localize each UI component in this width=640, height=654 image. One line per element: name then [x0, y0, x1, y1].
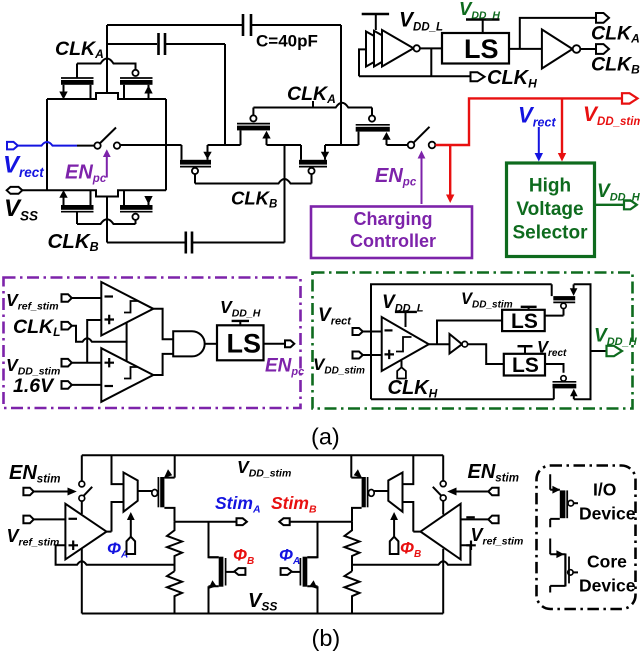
box green dash-dot border	[313, 273, 633, 409]
pin phi_A right	[281, 568, 292, 575]
svg-text:StimB: StimB	[271, 493, 317, 516]
svg-text:VDD_L: VDD_L	[399, 9, 443, 34]
switch S2 EN_pc	[408, 127, 436, 149]
svg-text:1.6V: 1.6V	[13, 375, 55, 397]
wire osc feedback	[359, 48, 470, 76]
svg-text:CLKB: CLKB	[591, 54, 640, 77]
svg-text:ΦB: ΦB	[233, 546, 254, 568]
pin V_DD_stim	[62, 320, 102, 367]
pin CLK_H clock input square	[397, 361, 406, 379]
transistor M4 PMOS bottom-right	[120, 190, 153, 224]
wire A2 plus feedback	[352, 545, 470, 564]
svg-text:ENstim: ENstim	[9, 462, 60, 486]
pin CLK_L	[62, 322, 127, 361]
arrow EN_pc up	[103, 149, 111, 177]
wire switch node	[77, 145, 94, 147]
pin V_DD_H selector	[624, 200, 637, 209]
wire C2 to stage2 rail	[340, 25, 342, 145]
wire CLKB gate wire with hump	[77, 219, 136, 224]
svg-text:VDD_H: VDD_H	[597, 181, 640, 204]
svg-text:ΦB: ΦB	[400, 539, 421, 561]
wire D2 out to M13 gate	[374, 490, 388, 492]
svg-text:Controller: Controller	[350, 231, 436, 251]
wire CLKA stage2 gate wire with hump	[253, 103, 372, 108]
transistor M7 PMOS stage2 top	[237, 108, 271, 146]
switch S4 right	[433, 455, 446, 514]
GREEN SELECTOR BOX	[313, 273, 638, 409]
transistor M11 PMOS left	[152, 455, 175, 521]
capacitor C3	[186, 232, 285, 254]
box inner solid	[371, 284, 591, 399]
transistor M12 NMOS phi_B	[208, 557, 234, 614]
op-amp A1	[65, 504, 106, 560]
arrow EN_pc stage2 up	[418, 151, 426, 205]
wire osc output to LS1	[420, 47, 442, 49]
svg-text:LS: LS	[464, 34, 499, 64]
transistor M10 PMOS bottom	[553, 376, 578, 400]
svg-text:CLKH: CLKH	[487, 67, 537, 91]
svg-text:ENstim: ENstim	[468, 461, 519, 485]
svg-text:VDD_L: VDD_L	[382, 292, 424, 315]
wire C1 to stage2 rail	[224, 44, 226, 145]
wire LS4 out to M10 gate	[545, 364, 564, 373]
wire V_DD_stim rail	[82, 454, 443, 456]
svg-text:StimA: StimA	[215, 493, 261, 516]
wire Stim_A to M12	[209, 522, 219, 558]
box LS2	[217, 325, 264, 360]
wire stage2 rail	[120, 144, 408, 146]
svg-text:Vrect: Vrect	[3, 152, 44, 181]
svg-text:VSS: VSS	[248, 590, 277, 614]
pin V_ref_stim left	[23, 516, 65, 524]
comparator CMP2	[101, 348, 153, 402]
svg-text:VDD_stim: VDD_stim	[237, 457, 291, 480]
wire Stim_B to M14	[307, 522, 317, 558]
transistor M3 NMOS bottom-left	[59, 190, 93, 224]
inverter U2	[542, 30, 596, 69]
svg-text:ΦA: ΦA	[107, 539, 128, 561]
svg-text:Device: Device	[579, 576, 636, 596]
pin V_DD_H green out	[607, 346, 623, 356]
power symbol V_DD_L CMP3	[395, 312, 417, 327]
svg-text:CLKL: CLKL	[13, 316, 60, 339]
box LS3 top	[502, 310, 545, 331]
svg-text:(a): (a)	[311, 424, 340, 450]
svg-text:VSS: VSS	[4, 195, 38, 224]
resistor R1	[167, 522, 182, 572]
svg-text:ΦA: ΦA	[279, 546, 300, 568]
pin Stim_A	[237, 518, 247, 525]
gate AND U3	[173, 331, 204, 356]
wire red branch to HV selector	[561, 98, 563, 155]
transistor M14 NMOS phi_A	[292, 557, 318, 614]
comparator CMP3	[382, 317, 429, 371]
pin CLK_B out	[596, 44, 609, 54]
wire V_DD_H out green	[591, 350, 607, 352]
pin V_DD_stim green box	[353, 352, 382, 359]
svg-text:Vrect: Vrect	[537, 339, 567, 360]
svg-text:CLKA: CLKA	[287, 83, 336, 106]
wire A2 out to driver D2	[403, 455, 421, 531]
transistor M8 PMOS stage3 top	[356, 108, 391, 146]
wire top rail to C2	[107, 24, 242, 26]
power symbol V_rect LS4	[518, 346, 533, 354]
legend I/O device symbol	[550, 474, 578, 527]
pin phi_B right up	[390, 512, 399, 554]
svg-text:Core: Core	[587, 552, 627, 572]
power symbol V_DD_H for LS2	[232, 321, 249, 325]
svg-text:Vref_stim: Vref_stim	[6, 290, 59, 313]
wire A2 ground stub	[442, 549, 444, 614]
svg-text:CLKA: CLKA	[55, 38, 104, 61]
svg-text:Vrect: Vrect	[318, 305, 352, 328]
wire V_DD_H output of selector	[595, 204, 624, 206]
wire red branch to charging controller	[449, 145, 451, 197]
pin CLK_A out	[596, 13, 609, 23]
box Charging Controller	[311, 207, 472, 259]
wire CMP2 out to AND	[153, 354, 173, 375]
wire D1 out to M11 gate	[138, 490, 152, 492]
svg-text:LS: LS	[511, 310, 538, 333]
svg-text:Charging: Charging	[354, 209, 433, 229]
node top-plate rail of pump cell	[106, 25, 108, 93]
SECTION-B	[7, 455, 636, 651]
PURPLE DETECTOR BOX	[4, 278, 305, 409]
wire inverter out to LS4	[468, 344, 504, 364]
svg-text:VDD_H: VDD_H	[594, 326, 638, 349]
wire CMP1 out to AND	[153, 309, 173, 339]
pin phi_A left up	[127, 512, 136, 554]
box purple dash-dot border	[4, 278, 301, 409]
box LS4 bottom	[504, 354, 545, 376]
svg-text:ENpc: ENpc	[265, 356, 304, 379]
svg-text:High: High	[529, 175, 571, 196]
transistor M6 NMOS hanging right	[299, 145, 329, 184]
svg-text:Voltage: Voltage	[516, 199, 583, 220]
svg-text:CLKB: CLKB	[231, 188, 277, 211]
arrow V_rect blue down	[535, 127, 543, 162]
transistor M9 PMOS top	[552, 284, 578, 315]
wire AND out to LS2	[206, 343, 218, 345]
svg-text:ENpc: ENpc	[375, 165, 417, 189]
wire mid to C1	[107, 43, 157, 45]
pin EN_stim left	[23, 488, 76, 496]
pin EN_stim right with arrow	[447, 488, 498, 496]
pin CLK_H	[471, 72, 485, 81]
wire LS2 out	[264, 343, 285, 345]
wire CLKB stage2 gate wire with hump	[195, 179, 312, 184]
legend Core device symbol	[550, 539, 578, 593]
wire pump cell right edge	[165, 99, 167, 190]
transistor M2 PMOS top-right	[120, 70, 153, 99]
svg-text:(b): (b)	[312, 625, 341, 651]
svg-text:Vref_stim: Vref_stim	[471, 525, 524, 548]
inverter chain U1	[366, 30, 420, 67]
pin V_ref_stim	[62, 294, 102, 302]
driver D1 trapezoid	[124, 473, 138, 512]
pin 1.6V	[62, 381, 102, 389]
wire C3 to stage2 rail	[284, 145, 286, 243]
inverter U4	[450, 334, 468, 354]
pin EN_pc out	[285, 340, 294, 347]
wire A1 plus feedback	[56, 545, 175, 564]
resistor R4	[345, 571, 360, 613]
svg-text:CLKB: CLKB	[48, 230, 99, 254]
svg-text:Vrect: Vrect	[518, 103, 556, 130]
comparator CMP1	[101, 282, 153, 336]
svg-text:VDD_stim: VDD_stim	[583, 103, 640, 128]
svg-text:C=40pF: C=40pF	[256, 32, 318, 51]
svg-text:LS: LS	[227, 328, 262, 358]
pin V_SS	[7, 187, 47, 194]
SECTION-A	[3, 0, 640, 258]
svg-text:LS: LS	[512, 354, 539, 377]
op-amp A2	[421, 504, 476, 560]
wire pump cell left edge	[46, 99, 48, 190]
box legend dash-dot	[537, 466, 636, 610]
svg-text:CLKA: CLKA	[591, 23, 640, 46]
node bottom-plate line	[106, 197, 108, 243]
pin phi_B left	[234, 568, 245, 575]
resistor R2	[167, 571, 182, 613]
wire CLK_A label stub	[312, 101, 314, 108]
switch S3 left	[79, 455, 92, 514]
wire pump cell top rail	[47, 93, 166, 99]
wire A1 out to driver D1	[107, 455, 124, 531]
driver D2 trapezoid	[388, 473, 402, 512]
resistor R3	[345, 522, 360, 572]
wire CMP3 out	[429, 321, 502, 345]
switch S1 EN_pc	[94, 128, 120, 149]
pin V_DD_stim output	[622, 93, 638, 103]
svg-text:VDD_H: VDD_H	[459, 0, 500, 22]
transistor M13 PMOS right	[351, 455, 374, 521]
pin Stim_B	[279, 518, 289, 525]
svg-text:I/O: I/O	[593, 480, 616, 500]
wire pump cell bottom rail	[47, 190, 166, 196]
svg-text:VDD_stim: VDD_stim	[461, 290, 513, 311]
power symbol V_DD_stim LS3	[521, 307, 537, 310]
wire Stim_B node	[290, 521, 352, 523]
power symbol V_DD_H for LS1	[466, 20, 500, 34]
svg-text:CLKH: CLKH	[388, 377, 438, 401]
transistor M5 NMOS hanging left	[180, 145, 212, 184]
box LS1	[442, 33, 509, 64]
pin V_rect input	[7, 142, 77, 150]
wire A1 ground stub	[81, 549, 83, 614]
capacitor C2	[243, 14, 341, 36]
capacitor C1	[159, 33, 226, 55]
box High Voltage Selector	[507, 163, 595, 257]
svg-text:VDD_H: VDD_H	[220, 297, 261, 320]
svg-text:ENpc: ENpc	[65, 162, 107, 186]
wire CLKA gate wire with hump	[77, 59, 136, 70]
svg-text:Vref_stim: Vref_stim	[7, 526, 60, 549]
power symbol V_DD_L	[362, 14, 389, 30]
wire bottom node to C3	[107, 242, 185, 244]
pin V_ref_stim right	[461, 516, 499, 524]
wire LS3 out to M9 gate	[545, 315, 564, 317]
svg-text:Device: Device	[579, 504, 636, 524]
wire Stim_A node	[175, 521, 237, 523]
wire V_SS rail	[82, 613, 443, 615]
transistor M1 NMOS top-left	[59, 64, 93, 100]
wire V_DD_stim red net	[435, 93, 637, 203]
svg-text:Selector: Selector	[513, 223, 589, 244]
wire LS1 out split	[509, 18, 596, 49]
pin V_rect green box	[353, 328, 382, 335]
